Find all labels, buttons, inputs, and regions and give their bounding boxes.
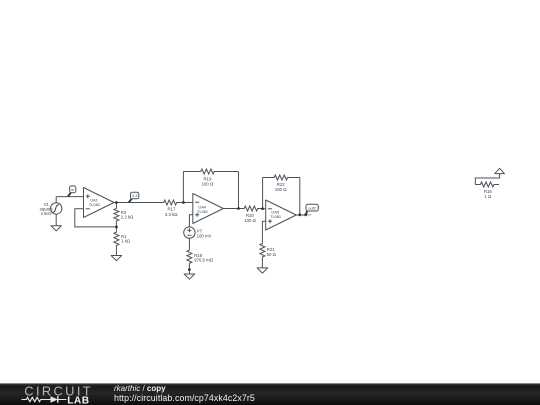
svg-text:100 mV: 100 mV [197, 233, 212, 238]
svg-text:1 kHz: 1 kHz [41, 211, 52, 216]
svg-text:2.2 kΩ: 2.2 kΩ [121, 215, 134, 220]
svg-text:100 Ω: 100 Ω [275, 187, 287, 192]
svg-text:100 Ω: 100 Ω [202, 182, 214, 187]
svg-text:976.5 mΩ: 976.5 mΩ [194, 258, 214, 263]
svg-text:TL081: TL081 [197, 209, 208, 214]
svg-text:3.3 kΩ: 3.3 kΩ [165, 212, 178, 217]
svg-text:TL081: TL081 [270, 214, 281, 219]
svg-text:50 Ω: 50 Ω [267, 252, 277, 257]
svg-text:out2: out2 [308, 206, 315, 210]
svg-text:100 Ω: 100 Ω [244, 218, 256, 223]
svg-text:in: in [71, 188, 74, 192]
svg-text:TL082: TL082 [89, 202, 100, 207]
svg-text:1 Ω: 1 Ω [484, 194, 492, 199]
svg-text:1 kΩ: 1 kΩ [121, 239, 131, 244]
svg-text:3.3: 3.3 [132, 194, 137, 198]
svg-text:LAB: LAB [67, 395, 89, 405]
